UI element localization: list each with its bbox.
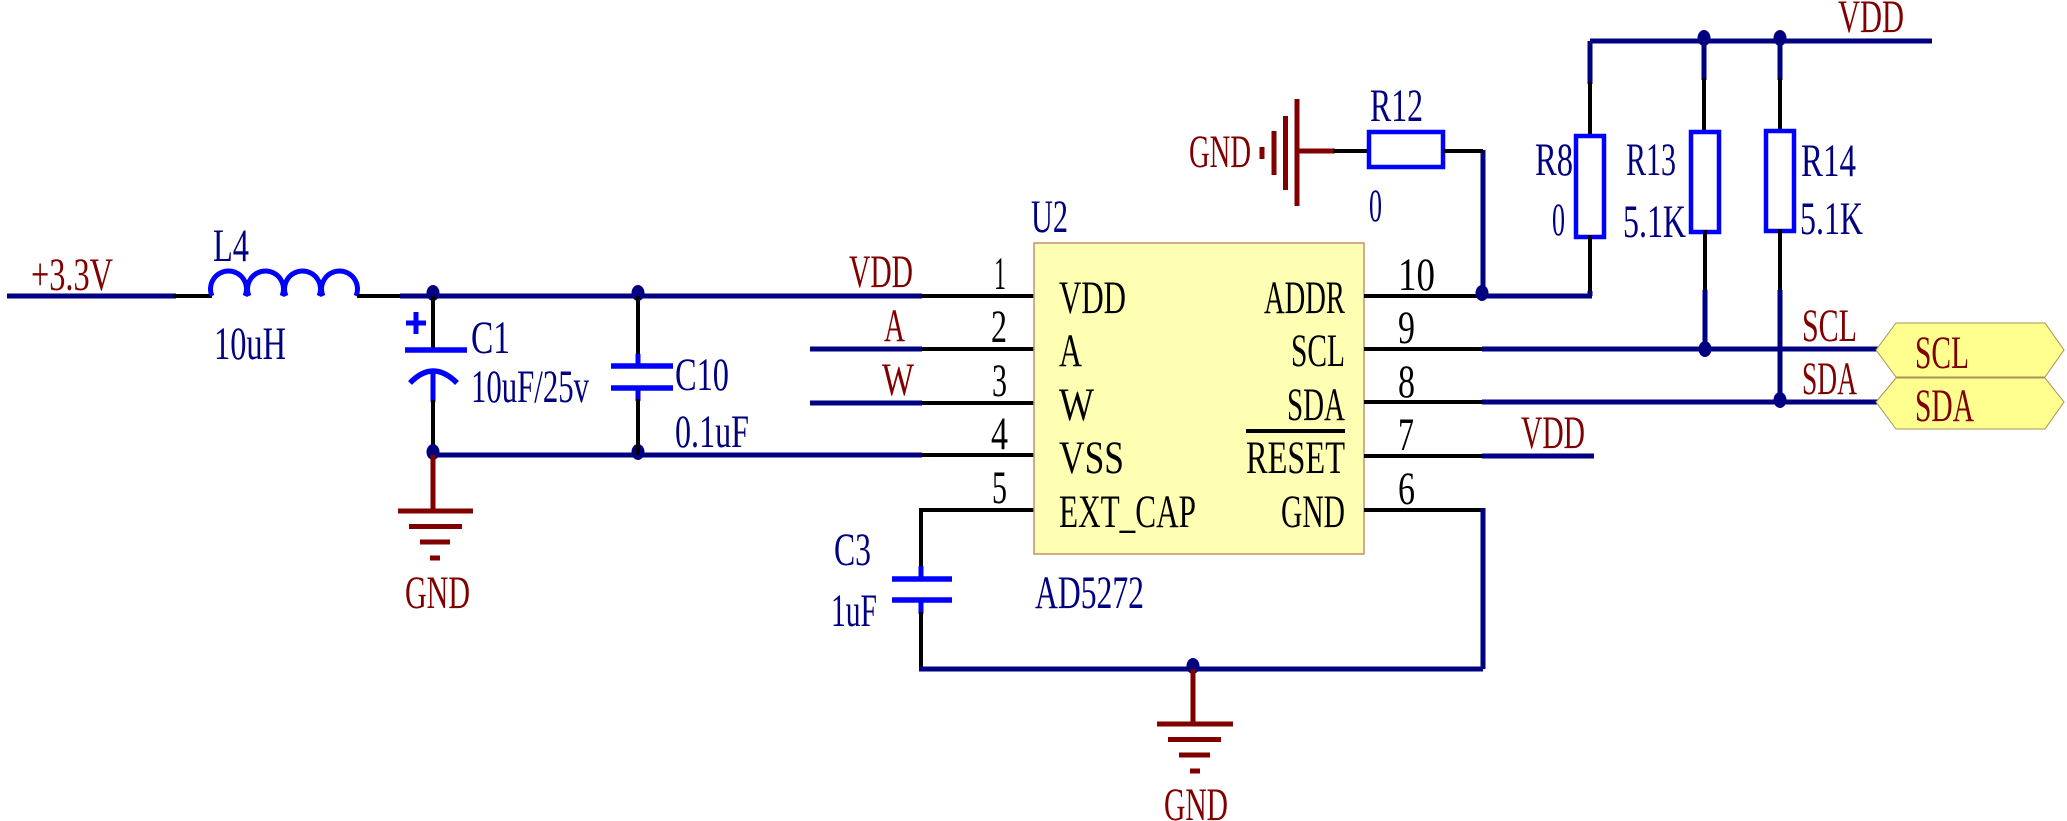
resistor R12 right lead [1443,149,1483,153]
node junction SDA R14 [1774,392,1787,408]
svg-text:AD5272: AD5272 [1035,567,1144,619]
capacitor C3 lower lead [919,612,923,669]
svg-text:W: W [1059,379,1094,431]
node junction SCL R13 [1699,341,1712,357]
svg-text:GND: GND [1281,486,1345,538]
wire +3.3V to L4 [7,294,176,299]
resistor R8 top lead [1588,82,1592,138]
svg-text:C10: C10 [675,349,729,401]
svg-text:EXT_CAP: EXT_CAP [1059,486,1196,538]
wire rail drop to R13 [1702,41,1707,80]
pin 9 lead [1364,347,1482,351]
svg-text:VDD: VDD [1059,272,1126,324]
pin 4 lead [921,453,1034,457]
resistor R12 left lead [1333,149,1369,153]
wire L4 to VDD pin1 top bus [400,294,922,299]
capacitor C1 curved plate [410,371,457,383]
pin lead L4 right [357,294,402,298]
svg-text:3: 3 [992,355,1007,407]
resistor R13 body [1691,132,1719,232]
svg-text:0.1uF: 0.1uF [675,406,749,458]
svg-text:R13: R13 [1626,134,1676,186]
svg-text:10uH: 10uH [214,318,286,370]
svg-text:A: A [1059,325,1082,377]
svg-text:SDA: SDA [1802,353,1857,405]
wire R8 to ADDR [1588,291,1593,296]
wire A pin2 [810,347,922,352]
svg-text:1: 1 [994,248,1006,300]
svg-text:GND: GND [1189,126,1251,178]
capacitor C1 lower lead [431,400,435,455]
resistor R12 body [1369,132,1443,167]
inductor L4 [211,271,358,296]
wire R12 down to ADDR [1481,150,1486,296]
port SCL [1876,323,2064,377]
svg-text:7: 7 [1398,409,1414,461]
capacitor C10 lower lead [636,399,640,455]
wire rail drop to R14 [1778,41,1783,80]
pin 7 lead [1364,454,1482,458]
svg-text:1uF: 1uF [831,585,877,637]
capacitor C10 plates [611,366,673,388]
wire R14 to SDA [1778,290,1783,402]
port SDA [1876,378,2064,429]
pin 6 lead [1364,508,1482,512]
capacitor C10 upper stub [636,354,641,366]
svg-text:9: 9 [1398,302,1415,354]
capacitor C1 lower stub [431,371,436,402]
pin 10 lead [1364,294,1482,298]
svg-text:5.1K: 5.1K [1623,196,1686,248]
pin 8 lead [1364,400,1482,404]
resistor R14 top lead [1778,78,1782,133]
capacitor C3 plates [892,579,952,600]
bottom wire C3 to pin6 [919,667,1483,672]
wire pin7 RESET to VDD [1482,454,1594,459]
capacitor C3 lower stub [919,600,924,614]
ground GND bottom [1157,669,1233,771]
pin lead L4 left [174,294,212,298]
svg-text:5.1K: 5.1K [1800,193,1863,245]
RESET overline [1246,429,1345,433]
resistor R13 bottom lead [1703,230,1707,292]
node junction at C1 bottom [427,444,440,460]
svg-text:L4: L4 [213,220,249,272]
node junction at C10 top [632,285,645,301]
svg-text:4: 4 [991,408,1008,460]
resistor R13 top lead [1702,78,1706,134]
svg-text:R14: R14 [1801,135,1856,187]
node junction rail R14 [1774,30,1787,46]
pin 1 lead [921,294,1034,298]
pin 5 lead to C3 [921,510,1034,568]
svg-text:5: 5 [992,462,1007,514]
wire pin6 down to bottom bus [1481,508,1486,669]
svg-text:GND: GND [405,567,470,619]
wire rail drop to R8 [1588,41,1593,84]
node junction ADDR [1476,285,1489,301]
capacitor C1 upper lead [431,296,435,349]
bottom bus wire C1 to VSS [433,453,922,458]
capacitor C10 lower stub [636,388,641,401]
capacitor C3 upper stub [919,566,924,579]
svg-text:VDD: VDD [1838,0,1904,43]
svg-text:ADDR: ADDR [1264,272,1345,324]
resistor R14 bottom lead [1778,229,1782,292]
svg-text:RESET: RESET [1246,432,1345,484]
svg-text:R12: R12 [1370,80,1423,132]
IC U2 body AD5272 [1034,243,1364,554]
svg-text:A: A [884,300,905,352]
svg-text:U2: U2 [1031,191,1068,243]
svg-text:SCL: SCL [1291,325,1345,377]
svg-text:VDD: VDD [1521,407,1585,459]
svg-text:SDA: SDA [1915,380,1974,432]
svg-text:VDD: VDD [849,246,913,298]
VDD rail wire [1590,39,1932,44]
svg-text:C3: C3 [834,524,871,576]
wire W pin3 [810,401,922,406]
svg-text:W: W [882,354,914,406]
svg-text:SCL: SCL [1915,327,1969,379]
svg-text:6: 6 [1398,463,1415,515]
svg-text:SDA: SDA [1287,379,1345,431]
svg-text:8: 8 [1398,356,1415,408]
pin 2 lead [921,347,1034,351]
svg-text:10: 10 [1398,249,1435,301]
capacitor C10 upper lead [636,296,640,358]
capacitor C1 positive plate [405,347,467,353]
ground GND under C1 [398,455,473,558]
svg-text:2: 2 [991,301,1007,353]
svg-text:+3.3V: +3.3V [31,249,113,301]
wire R13 to SCL [1703,290,1708,349]
svg-text:R8: R8 [1535,134,1573,186]
svg-text:VSS: VSS [1059,432,1124,484]
ground GND at R12 rotated [1262,99,1335,206]
svg-text:10uF/25v: 10uF/25v [471,361,589,413]
svg-text:0: 0 [1369,180,1382,232]
resistor R14 body [1766,131,1794,231]
wire pin8 SDA [1482,400,1878,405]
node junction at C1 top [427,285,440,301]
svg-text:C1: C1 [471,312,510,364]
svg-text:0: 0 [1552,194,1565,246]
node junction rail R13 [1698,30,1711,46]
wire pin9 SCL [1482,347,1878,352]
pin 3 lead [921,401,1034,405]
resistor R8 bottom lead [1588,235,1592,293]
node junction bottom GND [1187,658,1200,674]
resistor R8 body [1576,136,1604,237]
capacitor C1 plus sign [406,312,426,334]
svg-text:GND: GND [1164,779,1228,821]
svg-text:SCL: SCL [1802,300,1857,352]
wire pin10 ADDR to R8 [1482,294,1592,299]
node junction at C10 bottom [632,444,645,460]
